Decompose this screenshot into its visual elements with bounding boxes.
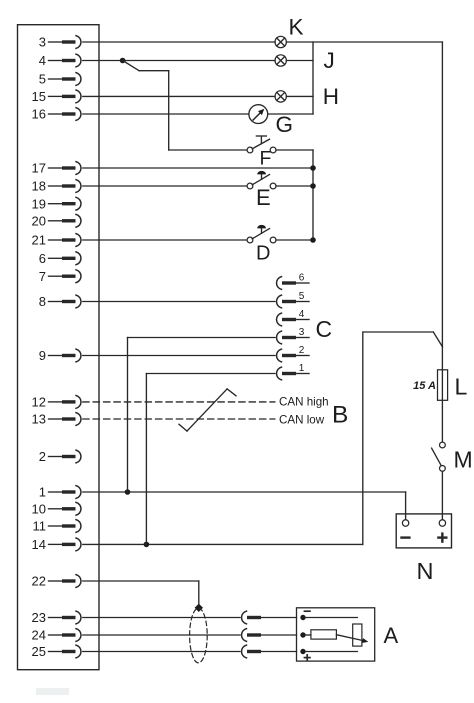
node shield connection diamond [195, 604, 203, 612]
component A box [297, 608, 375, 661]
svg-text:F: F [260, 148, 272, 170]
connector C pin 1 [277, 363, 309, 380]
wire switch M to battery plus [441, 471, 443, 519]
wire CAN high dashed pin12 [83, 401, 275, 403]
svg-text:3: 3 [39, 35, 46, 50]
svg-text:3: 3 [299, 327, 305, 338]
svg-text:1: 1 [39, 485, 46, 500]
wire pin4 to lamp J [83, 60, 275, 62]
wire lamp K to right rail [286, 41, 442, 43]
connector X1 body [18, 25, 100, 670]
wire CAN low dashed pin13 [83, 418, 275, 420]
pin 2 [39, 449, 81, 464]
svg-text:7: 7 [39, 269, 46, 284]
pin 6 [39, 251, 81, 266]
wire switch E output [276, 185, 313, 187]
lamp J [275, 55, 286, 66]
component A terminals [300, 615, 305, 654]
fuse L body [438, 370, 448, 401]
node switch bus D [310, 237, 316, 243]
svg-text:25: 25 [32, 644, 46, 659]
svg-text:17: 17 [32, 161, 46, 176]
watermark remnant [36, 688, 69, 695]
twisted pair symbol [179, 389, 236, 431]
svg-text:4: 4 [299, 309, 305, 320]
pin 7 [39, 269, 81, 284]
svg-text:5: 5 [299, 291, 305, 302]
pin 23 [32, 610, 81, 625]
svg-text:H: H [323, 84, 339, 109]
pin 14 [32, 537, 81, 552]
wire pin14 to supply vertical [83, 543, 363, 545]
pin 11 [33, 519, 81, 534]
wire C pin1 branch [146, 374, 275, 545]
svg-text:13: 13 [32, 412, 46, 427]
wire pin17 to switch bus [83, 167, 313, 169]
svg-text:19: 19 [32, 196, 46, 211]
switch M [432, 442, 446, 471]
component A minus mark [304, 610, 311, 612]
svg-text:C: C [316, 316, 333, 342]
wire lamp bus vertical [312, 42, 314, 114]
wire pin22 to shield [83, 581, 199, 606]
svg-text:20: 20 [32, 213, 46, 228]
battery N [396, 514, 451, 548]
wire pin9 to C pin2 [83, 355, 275, 357]
wire switch bus vertical [312, 150, 314, 240]
svg-text:CAN low: CAN low [279, 413, 325, 426]
svg-text:CAN high: CAN high [279, 396, 329, 409]
svg-text:6: 6 [39, 251, 46, 266]
pin 4 [39, 53, 81, 68]
svg-text:2: 2 [39, 449, 46, 464]
pin 17 [32, 161, 81, 176]
svg-text:15 A: 15 A [413, 380, 436, 392]
pin 21 [32, 233, 81, 248]
svg-text:11: 11 [33, 519, 47, 534]
wire gauge G to lamp bus [268, 113, 313, 115]
svg-text:N: N [417, 558, 434, 584]
switch D [247, 225, 276, 243]
component A bottom wire [306, 651, 358, 653]
pin 8 [39, 294, 81, 309]
connector C pin 3 [277, 327, 309, 344]
inline connector row 25 [83, 645, 297, 658]
svg-text:23: 23 [32, 610, 46, 625]
svg-text:14: 14 [32, 537, 46, 552]
svg-text:2: 2 [299, 345, 305, 356]
wire lamp J to lamp bus [286, 60, 313, 62]
sensor plate in A [353, 624, 362, 646]
svg-text:10: 10 [32, 501, 46, 516]
pin 25 [32, 644, 81, 659]
svg-text:6: 6 [299, 272, 305, 283]
pin 13 [32, 412, 81, 427]
node pin1/C3 junction [125, 489, 131, 495]
wire switch feeder vertical to F [169, 71, 248, 150]
svg-text:9: 9 [39, 348, 46, 363]
wire pin3 to lamp K [83, 41, 275, 43]
svg-text:12: 12 [32, 395, 46, 410]
svg-text:5: 5 [39, 72, 46, 87]
pin 19 [32, 196, 81, 211]
wire switch D output [276, 239, 313, 241]
lamp K [275, 36, 286, 47]
svg-text:G: G [276, 112, 294, 137]
wire pin21 to switch D [83, 239, 247, 241]
switch F [247, 136, 276, 153]
resistor in A [306, 630, 337, 639]
svg-text:15: 15 [32, 89, 46, 104]
svg-text:M: M [454, 447, 473, 473]
svg-text:16: 16 [32, 107, 46, 122]
connector C pin 6 [277, 272, 309, 289]
pin 9 [39, 348, 81, 363]
gauge G [249, 105, 268, 124]
svg-text:22: 22 [32, 574, 46, 589]
connector C pin 4 [277, 309, 309, 326]
svg-text:K: K [289, 15, 304, 40]
component A top wire [306, 617, 358, 619]
wire switch F output [276, 149, 313, 151]
wire fuse to switch M [441, 400, 443, 442]
pin 5 [39, 72, 81, 87]
connector C pin 5 [277, 291, 309, 308]
pin 16 [32, 107, 81, 122]
svg-text:8: 8 [39, 294, 46, 309]
component A plus mark [304, 654, 311, 661]
node pin14/C1 junction [144, 542, 150, 548]
connector C pin 2 [277, 345, 309, 362]
pin 15 [32, 89, 81, 104]
wire ignition tap kink to switch feeder [123, 61, 169, 71]
svg-text:21: 21 [32, 233, 46, 248]
wire pin18 to switch E [83, 185, 247, 187]
wire supply branch kink [363, 332, 442, 347]
node switch bus E [310, 183, 316, 189]
svg-text:L: L [455, 374, 468, 400]
wire pin1 to battery minus [83, 492, 406, 520]
pin 1 [39, 485, 81, 500]
node switch bus pin17 [310, 165, 316, 171]
svg-text:D: D [256, 243, 270, 265]
pin 3 [39, 35, 81, 50]
wire supply vertical [362, 332, 364, 544]
pin 20 [32, 213, 81, 228]
svg-text:18: 18 [32, 179, 46, 194]
lamp H [275, 91, 286, 102]
wire pin15 to lamp H [83, 95, 275, 97]
svg-text:24: 24 [32, 628, 46, 643]
wire pin16 to gauge G [83, 113, 249, 115]
svg-text:B: B [332, 402, 348, 429]
shield ellipse [190, 608, 208, 663]
pin 22 [32, 574, 81, 589]
pin 12 [32, 395, 81, 410]
inline connector row 24 [83, 629, 297, 642]
switch E [247, 171, 276, 189]
svg-text:4: 4 [39, 53, 46, 68]
node pin4 tap junction [120, 58, 126, 64]
pin 24 [32, 628, 81, 643]
wire rail to fuse [441, 347, 443, 370]
wire pin8 to C pin5 [83, 301, 275, 303]
wiper arrow in A [336, 635, 368, 643]
svg-text:E: E [256, 185, 271, 210]
wire right rail top [441, 42, 443, 347]
pin 10 [32, 501, 81, 516]
wire lamp H to lamp bus [286, 95, 313, 97]
svg-text:J: J [324, 48, 335, 73]
inline connector row 23 [83, 611, 297, 624]
wire C pin3 branch [128, 338, 276, 493]
svg-text:1: 1 [299, 363, 305, 374]
svg-text:A: A [384, 623, 399, 648]
pin 18 [32, 179, 81, 194]
